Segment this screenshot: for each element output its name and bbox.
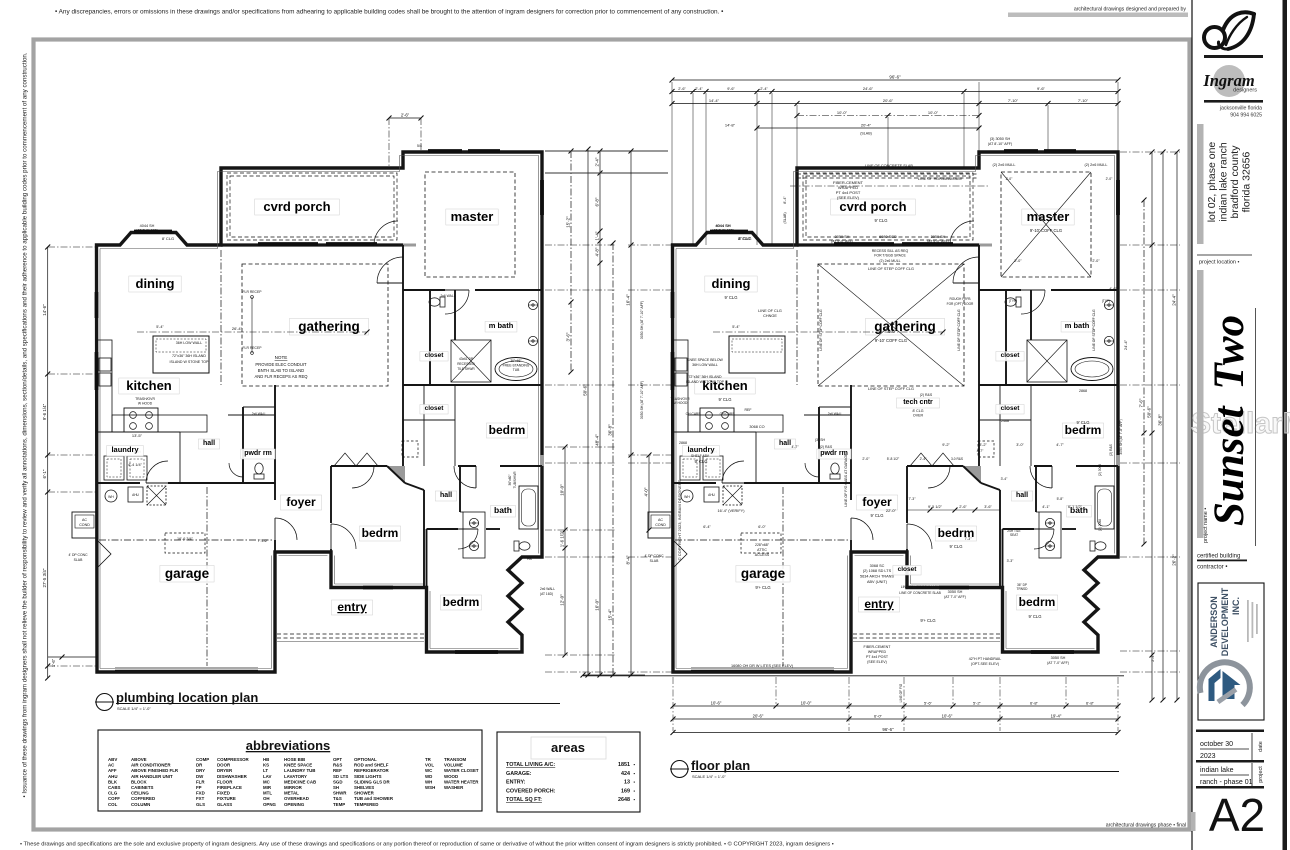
svg-text:SLIDING GLS DR: SLIDING GLS DR: [354, 779, 390, 784]
svg-text:9' CLG: 9' CLG: [871, 513, 884, 518]
svg-text:16'-6 3/4": 16'-6 3/4": [177, 537, 194, 541]
svg-text:2x6 WALL: 2x6 WALL: [540, 587, 555, 591]
svg-text:3050 SH: 3050 SH: [835, 235, 850, 239]
svg-text:DRYER: DRYER: [217, 768, 233, 773]
svg-text:KNEE SPACE BELOW: KNEE SPACE BELOW: [687, 358, 723, 362]
svg-text:OPNG: OPNG: [263, 802, 277, 807]
svg-text:bath: bath: [494, 505, 512, 515]
svg-text:FP: FP: [196, 785, 202, 790]
svg-text:10'-0": 10'-0": [928, 110, 939, 115]
svg-text:PT 4x4 POST: PT 4x4 POST: [866, 655, 889, 659]
svg-text:(AT 8'-0" AFF): (AT 8'-0" AFF): [927, 240, 949, 244]
svg-text:13'-5": 13'-5": [132, 433, 143, 438]
svg-text:10'-0": 10'-0": [559, 484, 564, 496]
svg-text:6'-8": 6'-8": [1030, 700, 1039, 705]
svg-text:10'-0": 10'-0": [837, 110, 848, 115]
svg-text:3'-6": 3'-6": [565, 332, 570, 341]
svg-text:3068 CO: 3068 CO: [749, 425, 764, 429]
svg-text:4'-7": 4'-7": [977, 449, 985, 453]
svg-text:14'-4": 14'-4": [709, 98, 720, 103]
svg-text:PROVIDE ELEC CONDUIT: PROVIDE ELEC CONDUIT: [255, 362, 307, 367]
svg-text:2'-0": 2'-0": [862, 457, 870, 461]
svg-text:7'-1/2": 7'-1/2": [258, 539, 269, 543]
svg-text:WATER CLOSET: WATER CLOSET: [444, 768, 479, 773]
svg-text:72"x36" 36H ISLAND: 72"x36" 36H ISLAND: [688, 375, 722, 379]
svg-text:project name •: project name •: [1203, 508, 1209, 543]
svg-text:1851: 1851: [618, 762, 630, 768]
svg-text:laundry: laundry: [687, 445, 715, 454]
svg-text:(3) SH: (3) SH: [815, 438, 826, 442]
svg-text:7'-10": 7'-10": [1008, 98, 1019, 103]
svg-text:OH: OH: [263, 796, 270, 801]
svg-text:3050 SH: 3050 SH: [948, 590, 963, 594]
svg-text:6'-8": 6'-8": [594, 197, 599, 206]
svg-text:4'-4 1/4": 4'-4 1/4": [128, 463, 143, 467]
svg-text:10'-0": 10'-0": [801, 700, 812, 705]
svg-text:20'-6": 20'-6": [753, 713, 764, 718]
svg-text:(AT 7'-0" AFF): (AT 7'-0" AFF): [944, 595, 966, 599]
svg-text:indian lake ranch: indian lake ranch: [1218, 142, 1230, 222]
svg-text:9' CLG: 9' CLG: [719, 397, 732, 402]
svg-text:cvrd porch: cvrd porch: [839, 199, 906, 214]
svg-text:16'-4" (VERIFY): 16'-4" (VERIFY): [718, 509, 746, 513]
svg-text:AC: AC: [82, 518, 87, 522]
svg-text:9' CLG: 9' CLG: [950, 544, 963, 549]
svg-text:closet: closet: [1001, 405, 1021, 412]
svg-text:(2) R&S: (2) R&S: [920, 393, 933, 397]
svg-text:AHU: AHU: [708, 493, 715, 497]
svg-text:3050 SH (AT 7'-10" AFF): 3050 SH (AT 7'-10" AFF): [640, 381, 644, 419]
svg-text:master: master: [451, 209, 494, 224]
svg-text:(2) 2068: (2) 2068: [1098, 519, 1102, 531]
svg-text:ENTRY:: ENTRY:: [506, 780, 526, 786]
svg-text:8' CLG: 8' CLG: [162, 236, 174, 241]
svg-text:AHU: AHU: [132, 493, 139, 497]
svg-text:REFRIGERATOR: REFRIGERATOR: [354, 768, 390, 773]
svg-text:2x6 WALL: 2x6 WALL: [440, 294, 455, 298]
svg-text:8'-4": 8'-4": [625, 555, 630, 564]
svg-text:AC: AC: [108, 763, 115, 768]
svg-text:kitchen: kitchen: [126, 378, 172, 393]
svg-text:1'-6 1/2": 1'-6 1/2": [559, 530, 564, 547]
svg-text:LINE OF STOP COFF CLG: LINE OF STOP COFF CLG: [957, 309, 961, 351]
svg-text:424: 424: [621, 771, 630, 777]
svg-text:ABOVE FINISHED FLR: ABOVE FINISHED FLR: [131, 768, 179, 773]
svg-text:6'-1 1/2": 6'-1 1/2": [1068, 505, 1083, 509]
svg-text:(TYP): (TYP): [1009, 299, 1017, 303]
svg-text:DRY: DRY: [196, 768, 205, 773]
svg-text:2'-4": 2'-4": [920, 457, 928, 461]
svg-text:5634 ARCH TRANS: 5634 ARCH TRANS: [860, 575, 894, 579]
svg-text:OVERHEAD: OVERHEAD: [284, 796, 309, 801]
svg-text:ABV: ABV: [108, 757, 117, 762]
svg-text:SH: SH: [333, 785, 339, 790]
svg-text:NOTE: NOTE: [275, 355, 288, 360]
svg-text:COND: COND: [655, 523, 666, 527]
svg-text:42"H PT HANDRAIL: 42"H PT HANDRAIL: [969, 657, 1002, 661]
svg-text:hall: hall: [440, 492, 452, 499]
svg-text:hall: hall: [1016, 492, 1028, 499]
svg-text:9'-6": 9'-6": [1037, 86, 1046, 91]
svg-text:26'-2": 26'-2": [1171, 554, 1176, 566]
svg-text:AC: AC: [658, 518, 663, 522]
svg-text:3-0 R&S: 3-0 R&S: [951, 457, 963, 461]
svg-text:SGD: SGD: [333, 779, 343, 784]
svg-text:TR: TR: [425, 757, 432, 762]
svg-text:43x61 DP: 43x61 DP: [459, 357, 473, 361]
svg-text:(3) 3050 SH: (3) 3050 SH: [990, 137, 1011, 141]
svg-text:9' CLG: 9' CLG: [1077, 420, 1090, 425]
svg-text:ATTIC: ATTIC: [757, 548, 767, 552]
svg-text:2'-0": 2'-0": [1092, 259, 1100, 263]
svg-text:904 994 6025: 904 994 6025: [1230, 113, 1262, 119]
svg-text:WH: WH: [108, 495, 114, 499]
svg-text:26'-4": 26'-4": [232, 326, 243, 331]
svg-text:TRASH/OVR: TRASH/OVR: [135, 397, 155, 401]
svg-text:TRANSOM: TRANSOM: [444, 757, 467, 762]
svg-text:bradford county: bradford county: [1229, 145, 1241, 219]
svg-text:8' CLG: 8' CLG: [739, 236, 752, 241]
svg-text:DISHWASHER: DISHWASHER: [217, 774, 248, 779]
svg-text:FREE-STANDING: FREE-STANDING: [503, 364, 530, 368]
svg-text:MTL: MTL: [263, 791, 272, 796]
svg-text:CABS: CABS: [108, 785, 121, 790]
svg-text:8' CLG: 8' CLG: [912, 409, 923, 413]
svg-text:FLR RECEP: FLR RECEP: [242, 346, 262, 350]
svg-text:plumbing location plan: plumbing location plan: [116, 690, 258, 705]
svg-text:(2) 3068: (2) 3068: [1098, 464, 1102, 476]
svg-text:(SLAB): (SLAB): [860, 132, 872, 136]
svg-text:COVERED PORCH:: COVERED PORCH:: [506, 788, 556, 794]
svg-text:(TYP): (TYP): [1102, 299, 1110, 303]
svg-text:tech cntr: tech cntr: [903, 399, 933, 406]
svg-text:LINE OF CLG: LINE OF CLG: [758, 309, 782, 313]
svg-text:9'+ CLG: 9'+ CLG: [920, 618, 935, 623]
svg-text:10'-6": 10'-6": [711, 700, 722, 705]
svg-text:FLR RECEP: FLR RECEP: [242, 290, 262, 294]
svg-text:OH CABS: OH CABS: [686, 412, 702, 416]
svg-text:ROUGH FRFB: ROUGH FRFB: [949, 297, 970, 301]
svg-text:SHELF ABV: SHELF ABV: [691, 454, 710, 458]
svg-text:12'-0": 12'-0": [559, 594, 564, 606]
svg-text:72"x36" 36H ISLAND: 72"x36" 36H ISLAND: [172, 354, 206, 358]
svg-text:2'-6": 2'-6": [401, 112, 410, 117]
svg-text:3'-6": 3'-6": [984, 505, 992, 509]
svg-text:(OPT-SEE ELEV): (OPT-SEE ELEV): [971, 662, 999, 666]
svg-text:4044 SH: 4044 SH: [715, 223, 731, 228]
svg-text:16080 OH DR W LITES (SEE ELEV): 16080 OH DR W LITES (SEE ELEV): [731, 664, 794, 668]
svg-text:GLASS: GLASS: [217, 802, 232, 807]
svg-text:228"x68": 228"x68": [755, 543, 770, 547]
svg-text:LT: LT: [263, 768, 268, 773]
svg-text:WASHER: WASHER: [444, 785, 464, 790]
svg-text:GLS: GLS: [196, 802, 205, 807]
svg-text:laundry: laundry: [111, 445, 139, 454]
svg-text:(2) 2x6 MULL: (2) 2x6 MULL: [992, 163, 1015, 167]
svg-text:m bath: m bath: [489, 321, 514, 330]
svg-text:RECESSED: RECESSED: [457, 362, 475, 366]
svg-text:foyer: foyer: [286, 495, 316, 509]
svg-text:2'-0": 2'-0": [1106, 177, 1114, 181]
svg-text:9'-2": 9'-2": [942, 443, 950, 447]
svg-text:LINE OF HDR/BEAM ABV: LINE OF HDR/BEAM ABV: [901, 585, 940, 589]
svg-text:AIR HANDLER UNIT: AIR HANDLER UNIT: [131, 774, 173, 779]
svg-text:WD: WD: [425, 774, 432, 779]
svg-text:FIXTURE: FIXTURE: [217, 796, 236, 801]
svg-text:(AT 16D): (AT 16D): [540, 592, 553, 596]
svg-text:3'-2": 3'-2": [979, 443, 987, 447]
svg-text:TOTAL LIVING A/C:: TOTAL LIVING A/C:: [506, 762, 555, 768]
svg-text:1'-4": 1'-4": [594, 231, 599, 240]
svg-text:ABOVE: ABOVE: [131, 757, 147, 762]
svg-text:SD LTS: SD LTS: [333, 774, 348, 779]
svg-text:COLUMN: COLUMN: [131, 802, 150, 807]
svg-text:24'-4": 24'-4": [1171, 294, 1176, 306]
svg-text:3050 SH (AT 7'-8" AFF): 3050 SH (AT 7'-8" AFF): [1119, 419, 1123, 454]
svg-text:COL: COL: [108, 802, 118, 807]
svg-text:TEMP: TEMP: [333, 802, 345, 807]
svg-text:BLOCK: BLOCK: [131, 779, 147, 784]
svg-text:dining: dining: [136, 276, 175, 291]
svg-text:floor plan: floor plan: [691, 758, 750, 773]
svg-text:architectural drawings designe: architectural drawings designed and prep…: [1074, 7, 1187, 13]
svg-text:garage: garage: [165, 566, 210, 581]
svg-text:TEMPERED: TEMPERED: [354, 802, 378, 807]
svg-text:OPENING: OPENING: [284, 802, 305, 807]
svg-text:LINE OF CONCRETE SLAB: LINE OF CONCRETE SLAB: [899, 591, 941, 595]
svg-text:2'-6": 2'-6": [678, 87, 686, 91]
svg-text:3068 SC: 3068 SC: [870, 564, 885, 568]
svg-text:ISLAND W STONE TOP: ISLAND W STONE TOP: [686, 380, 725, 384]
svg-text:(SEE ELEV): (SEE ELEV): [867, 660, 887, 664]
svg-text:project location •: project location •: [1199, 260, 1240, 266]
svg-text:LINE OF CONCRETE SLAB: LINE OF CONCRETE SLAB: [865, 164, 913, 168]
svg-text:2468: 2468: [1001, 419, 1009, 423]
svg-text:2'-4": 2'-4": [594, 157, 599, 166]
svg-text:GARAGE:: GARAGE:: [506, 771, 532, 777]
svg-text:OPT: OPT: [333, 757, 342, 762]
svg-text:2'-6": 2'-6": [959, 505, 967, 509]
svg-text:certified building: certified building: [1197, 554, 1240, 560]
svg-text:• Any discrepancies, errors o: • Any discrepancies, errors or omissions…: [55, 9, 723, 16]
svg-text:LINE OF HDR/BEAM ABV: LINE OF HDR/BEAM ABV: [918, 177, 963, 181]
svg-text:(2) 1068 SD LTS: (2) 1068 SD LTS: [863, 569, 892, 573]
svg-text:DEVELOPMENT: DEVELOPMENT: [1220, 587, 1230, 656]
svg-text:AHU: AHU: [108, 774, 118, 779]
svg-text:14'-8": 14'-8": [725, 122, 736, 127]
svg-text:2023: 2023: [1200, 753, 1216, 760]
svg-text:BNTH SLAB TO ISLAND: BNTH SLAB TO ISLAND: [258, 368, 304, 373]
svg-text:5/4: 5/4: [417, 144, 422, 148]
svg-text:LAV: LAV: [263, 774, 272, 779]
svg-text:COMP: COMP: [196, 757, 209, 762]
svg-text:ANDERSON: ANDERSON: [1209, 596, 1219, 648]
svg-text:4'-0": 4'-0": [643, 487, 648, 496]
svg-text:8'-4": 8'-4": [783, 196, 787, 204]
svg-text:36"x60": 36"x60": [508, 475, 512, 486]
svg-text:9' CLG: 9' CLG: [725, 295, 738, 300]
svg-text:T&S: T&S: [333, 796, 342, 801]
svg-text:ACCESS: ACCESS: [755, 553, 770, 557]
svg-text:2'-0": 2'-0": [1006, 177, 1014, 181]
svg-text:ranch - phase 01: ranch - phase 01: [1200, 779, 1253, 786]
svg-text:LAUNDRY TUB: LAUNDRY TUB: [284, 768, 315, 773]
svg-text:LINE OF F/G: LINE OF F/G: [899, 683, 903, 702]
svg-text:13: 13: [624, 780, 630, 786]
svg-text:LINE OF STOP COFF CLG: LINE OF STOP COFF CLG: [819, 309, 823, 351]
svg-text:LINE OF F/G CABS AT GARAGE: LINE OF F/G CABS AT GARAGE: [844, 453, 848, 507]
svg-text:96'-6": 96'-6": [882, 727, 894, 732]
svg-text:DW: DW: [196, 774, 204, 779]
svg-text:RECESS SILL AS REQ: RECESS SILL AS REQ: [872, 249, 909, 253]
svg-text:7'-10": 7'-10": [1078, 98, 1089, 103]
svg-text:FIBER-CEMENT: FIBER-CEMENT: [864, 645, 892, 649]
svg-text:3050 SH: 3050 SH: [1051, 656, 1066, 660]
svg-text:36'-8": 36'-8": [607, 424, 612, 436]
svg-text:W HOOD: W HOOD: [138, 402, 153, 406]
svg-text:• Issuance of these drawings: • Issuance of these drawings from ingram…: [22, 52, 29, 797]
svg-text:garage: garage: [741, 566, 786, 581]
svg-text:date: date: [1258, 741, 1264, 752]
svg-text:WH: WH: [684, 495, 690, 499]
svg-text:HB: HB: [263, 757, 269, 762]
svg-text:5'-8 1/2": 5'-8 1/2": [887, 457, 900, 461]
svg-text:9'+ CLG: 9'+ CLG: [755, 585, 770, 590]
svg-text:dining: dining: [712, 276, 751, 291]
svg-text:7'-3": 7'-3": [909, 497, 917, 501]
svg-text:HB: HB: [527, 557, 532, 561]
svg-text:5'-4": 5'-4": [732, 325, 740, 329]
svg-text:(SEE ELEV): (SEE ELEV): [837, 195, 860, 200]
svg-text:50'-6": 50'-6": [1146, 406, 1151, 418]
svg-text:bedrm: bedrm: [489, 423, 526, 437]
svg-text:22'-0": 22'-0": [886, 508, 897, 513]
svg-text:2'-0": 2'-0": [1014, 259, 1022, 263]
svg-text:entry: entry: [864, 597, 894, 611]
svg-text:15'-2": 15'-2": [565, 216, 570, 228]
svg-text:ROD and SHELF: ROD and SHELF: [354, 763, 389, 768]
svg-text:(AT 8'-10" AFF): (AT 8'-10" AFF): [988, 142, 1012, 146]
svg-text:LINE OF STEP COFF CLG: LINE OF STEP COFF CLG: [868, 387, 914, 391]
svg-text:3'-3": 3'-3": [1007, 559, 1015, 563]
svg-text:3050 SH: 3050 SH: [931, 235, 946, 239]
svg-text:16'-0": 16'-0": [594, 599, 599, 611]
svg-text:FXT: FXT: [196, 796, 205, 801]
svg-text:CABINETS: CABINETS: [131, 785, 154, 790]
svg-text:FOR (OPT) DOOR: FOR (OPT) DOOR: [947, 302, 974, 306]
svg-text:WH: WH: [425, 779, 432, 784]
svg-text:MEDICINE CAB: MEDICINE CAB: [284, 779, 316, 784]
svg-text:6'-0": 6'-0": [758, 525, 766, 529]
svg-text:FIREPLACE: FIREPLACE: [217, 785, 242, 790]
svg-text:4' DP CONC: 4' DP CONC: [68, 553, 88, 557]
svg-text:4'-7": 4'-7": [792, 445, 800, 449]
svg-text:OPTIONAL: OPTIONAL: [354, 757, 377, 762]
svg-text:OH CABS: OH CABS: [720, 412, 736, 416]
svg-text:foyer: foyer: [862, 495, 892, 509]
svg-text:entry: entry: [337, 600, 367, 614]
svg-text:5'-8": 5'-8": [1057, 497, 1065, 501]
svg-text:• These drawings and specific: • These drawings and specifications are …: [20, 841, 834, 848]
svg-text:3050 SH (AT 7'-10" AFF): 3050 SH (AT 7'-10" AFF): [640, 301, 644, 339]
svg-text:9'-5 1/2": 9'-5 1/2": [928, 505, 943, 509]
svg-text:FOR T/SGD SPACE: FOR T/SGD SPACE: [874, 254, 906, 258]
svg-text:october 30: october 30: [1200, 741, 1233, 748]
svg-text:FLOOR: FLOOR: [217, 779, 233, 784]
svg-text:m bath: m bath: [1065, 321, 1090, 330]
svg-text:(AT 7'-0" AFF): (AT 7'-0" AFF): [1047, 661, 1069, 665]
svg-text:CHNGE: CHNGE: [763, 314, 777, 318]
svg-text:A2: A2: [1209, 789, 1265, 841]
svg-text:(2) 2x6 MULL: (2) 2x6 MULL: [879, 259, 900, 263]
svg-text:5'-2": 5'-2": [973, 700, 982, 705]
svg-text:COFFERED: COFFERED: [131, 796, 155, 801]
svg-text:36'-8": 36'-8": [1157, 414, 1162, 426]
svg-text:REF: REF: [745, 408, 752, 412]
svg-text:COND: COND: [79, 523, 90, 527]
svg-text:(AT 8'-0" AFF): (AT 8'-0" AFF): [831, 240, 853, 244]
svg-text:LINE OF STEP COFF CLG: LINE OF STEP COFF CLG: [868, 267, 914, 271]
svg-text:TUB and SHOWER: TUB and SHOWER: [354, 796, 394, 801]
svg-text:36"x66": 36"x66": [510, 359, 522, 363]
svg-text:(AT 7'-0" AFF): (AT 7'-0" AFF): [712, 229, 734, 233]
svg-text:9' CLG: 9' CLG: [695, 459, 708, 464]
svg-text:6'-0": 6'-0": [874, 713, 883, 718]
svg-text:bedrm: bedrm: [443, 595, 480, 609]
svg-text:16'-4": 16'-4": [625, 294, 630, 306]
svg-text:OVER: OVER: [913, 414, 924, 418]
svg-text:5'-6": 5'-6": [924, 700, 933, 705]
svg-text:2'-4": 2'-4": [760, 87, 768, 91]
svg-text:MIRROR: MIRROR: [284, 785, 303, 790]
svg-text:SCALE 1/4" = 1'-0": SCALE 1/4" = 1'-0": [692, 774, 726, 779]
svg-text:169: 169: [621, 788, 630, 794]
svg-text:24'-4": 24'-4": [1123, 339, 1128, 350]
svg-text:WC: WC: [425, 768, 433, 773]
svg-text:indian lake: indian lake: [1200, 767, 1234, 774]
svg-text:SHELVES: SHELVES: [354, 785, 374, 790]
svg-text:ABV (UNIT): ABV (UNIT): [867, 580, 888, 584]
svg-text:10'-6": 10'-6": [942, 713, 953, 718]
svg-text:jacksonville florida: jacksonville florida: [1219, 106, 1262, 112]
svg-text:INC.: INC.: [1231, 597, 1241, 615]
svg-text:9'-10' COFF CLG: 9'-10' COFF CLG: [1030, 228, 1062, 233]
svg-text:5'-4": 5'-4": [156, 325, 164, 329]
svg-text:hall: hall: [203, 440, 215, 447]
svg-text:VOL: VOL: [425, 763, 434, 768]
svg-text:contractor •: contractor •: [1197, 565, 1227, 571]
svg-text:hall: hall: [779, 440, 791, 447]
svg-text:abbreviations: abbreviations: [246, 738, 331, 753]
svg-text:closet: closet: [898, 566, 918, 573]
svg-text:(AT 7'-0" AFF): (AT 7'-0" AFF): [136, 229, 158, 233]
svg-text:(2) 2x6 MULL: (2) 2x6 MULL: [1084, 163, 1107, 167]
svg-text:FLR: FLR: [196, 779, 205, 784]
svg-text:COFF: COFF: [108, 796, 120, 801]
svg-text:lot 02, phase one: lot 02, phase one: [1206, 142, 1218, 223]
svg-text:FXD: FXD: [196, 791, 205, 796]
svg-text:SEAT: SEAT: [1010, 533, 1018, 537]
svg-text:WATER HEATER: WATER HEATER: [444, 779, 479, 784]
svg-text:closet: closet: [425, 405, 445, 412]
svg-text:4044 SH: 4044 SH: [140, 224, 155, 228]
svg-text:TOTAL SQ FT:: TOTAL SQ FT:: [506, 797, 542, 803]
svg-text:W/ HOOD: W/ HOOD: [673, 401, 688, 405]
svg-text:TILE SHWR: TILE SHWR: [457, 367, 475, 371]
svg-text:7'-6": 7'-6": [1138, 398, 1143, 407]
svg-text:20'-4": 20'-4": [861, 122, 872, 127]
svg-text:(2) R&S: (2) R&S: [820, 445, 833, 449]
